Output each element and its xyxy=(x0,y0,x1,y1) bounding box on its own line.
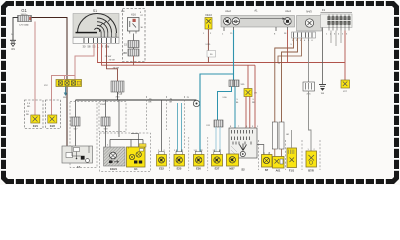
dashed col B xyxy=(99,102,126,132)
svg-text:A7: A7 xyxy=(77,165,81,169)
wire red pair into module xyxy=(246,97,250,129)
connector X11 xyxy=(206,120,223,127)
connector X30 on red C xyxy=(111,81,124,99)
svg-text:RD: RD xyxy=(27,106,31,108)
module N body xyxy=(297,16,322,32)
wire S1 pin to connector X xyxy=(107,44,118,82)
dashed box W10 xyxy=(25,100,44,129)
lamp c xyxy=(174,152,185,171)
connector bar X12 xyxy=(56,80,82,87)
wire N pin grey down to lamp k xyxy=(308,38,310,82)
svg-text:.5 RD: .5 RD xyxy=(205,44,211,46)
svg-text:.75 GR: .75 GR xyxy=(112,68,119,70)
wire S1 pin to red bus B xyxy=(102,44,256,66)
dashed col A xyxy=(70,102,97,168)
svg-text:S1: S1 xyxy=(93,9,97,13)
connector W10 xyxy=(31,115,40,128)
indicator lamp A1e2 xyxy=(224,18,231,25)
svg-text:.75 SW: .75 SW xyxy=(104,56,112,58)
svg-text:A1e4: A1e4 xyxy=(285,10,291,13)
svg-text:S2: S2 xyxy=(241,168,245,172)
wire blue into module xyxy=(234,87,236,129)
bus end circle xyxy=(193,100,199,106)
wire cluster blue down xyxy=(233,30,235,80)
module N pin strip xyxy=(292,32,316,38)
dashed enclosure xyxy=(123,9,146,62)
lamp d xyxy=(194,152,205,171)
wire S1 to interior connector xyxy=(75,44,94,81)
lamp partition dashes xyxy=(170,137,208,171)
svg-text:N4/3: N4/3 xyxy=(306,10,312,14)
ground W3 under fuses xyxy=(319,28,326,96)
indicator lamp A1e4 xyxy=(284,18,291,25)
battery G1 xyxy=(18,16,32,27)
dashed enclosure E1 xyxy=(100,133,151,172)
wire into j xyxy=(286,130,292,148)
fuse box F1 xyxy=(321,14,353,46)
connector S17 xyxy=(71,117,80,131)
svg-text:RD: RD xyxy=(26,114,30,116)
svg-text:E1: E1 xyxy=(134,167,138,171)
leveling motor M21 xyxy=(104,147,126,171)
wire S1 pin to red bus A xyxy=(98,44,345,63)
indicator lamp A1e1 xyxy=(232,18,239,25)
wire X30 to bus xyxy=(117,92,119,100)
wire G1 to ground xyxy=(11,18,18,41)
connector X9 yellow xyxy=(244,65,257,96)
wire fuse red down to X27 xyxy=(344,31,346,81)
wire S18 down xyxy=(105,126,107,147)
svg-text:15R: 15R xyxy=(122,52,127,55)
connector X27 xyxy=(341,80,350,93)
wire G1 red feed down xyxy=(27,22,35,116)
connector S18 xyxy=(101,117,110,131)
wire N pin to left drop b xyxy=(282,38,298,122)
ground arrow below X12 xyxy=(64,87,68,97)
module A7 xyxy=(62,146,93,169)
wire pale blue to lamp e xyxy=(216,127,220,152)
connector S35a xyxy=(124,41,139,48)
connector S35b xyxy=(122,49,139,56)
connector X35 pair xyxy=(229,80,245,87)
connector X4 xyxy=(205,18,212,30)
cluster pins xyxy=(224,27,288,31)
svg-text:X4/2: X4/2 xyxy=(50,125,56,128)
unit i xyxy=(273,157,285,173)
lamp f xyxy=(227,154,239,170)
fuse box F1 bracket xyxy=(321,8,353,13)
svg-text:B7/8: B7/8 xyxy=(308,169,314,173)
wire cluster red down xyxy=(287,30,289,63)
svg-text:12V 62Ah: 12V 62Ah xyxy=(19,24,29,27)
relay K1 label xyxy=(131,12,142,17)
pin ticks above lamps xyxy=(177,150,270,155)
connector S88 xyxy=(303,82,315,96)
svg-text:58d: 58d xyxy=(105,45,110,49)
svg-text:A01: A01 xyxy=(276,169,281,173)
wire S17 to module A xyxy=(75,126,77,146)
wire X4 down to bus A xyxy=(207,29,216,63)
headlamp unit E1 xyxy=(127,144,147,171)
svg-text:E25: E25 xyxy=(177,166,182,170)
svg-text:X18/1: X18/1 xyxy=(100,104,106,106)
svg-text:.75 GE: .75 GE xyxy=(108,60,115,62)
svg-text:A1: A1 xyxy=(254,9,258,13)
battery G1 label xyxy=(21,8,28,16)
dashed cols right of bus xyxy=(147,96,321,170)
svg-text:N7: N7 xyxy=(265,168,269,172)
svg-text:G1: G1 xyxy=(21,8,27,13)
switch S1 body xyxy=(73,14,119,38)
wire N pin to left drop a xyxy=(275,38,294,122)
svg-text:X4/10: X4/10 xyxy=(205,13,212,17)
cluster A1 body xyxy=(221,16,295,28)
svg-text:F1/1: F1/1 xyxy=(289,169,295,173)
cluster A1 labels xyxy=(225,9,291,14)
unit k xyxy=(306,151,317,173)
switch S1 pin numbers xyxy=(83,45,110,49)
connector W16 xyxy=(48,115,57,128)
ground bus xyxy=(76,99,197,101)
wire relay chain xyxy=(133,34,135,66)
wire G1 main feed to vertical drop xyxy=(32,18,68,147)
wire N pin bend c xyxy=(278,38,302,63)
wire blue drop e branch xyxy=(218,87,232,121)
lamp E b xyxy=(157,152,167,171)
svg-text:E27: E27 xyxy=(215,166,220,170)
ground W1 xyxy=(10,40,16,51)
module N label xyxy=(306,10,312,14)
wire blue branch to lamp d xyxy=(200,74,234,152)
relay K1 xyxy=(128,18,140,34)
connector X4 label xyxy=(205,13,212,17)
svg-text:A1e2: A1e2 xyxy=(225,10,231,13)
switch S1 pin strip xyxy=(73,38,119,44)
bus stubs xyxy=(76,100,162,152)
svg-text:BR: BR xyxy=(149,102,152,104)
border frame (film-style dashed black bars) xyxy=(1,1,400,185)
switch S1 label xyxy=(93,9,97,13)
wire S88 down to lamp k xyxy=(309,91,312,151)
svg-text:K16: K16 xyxy=(131,13,136,17)
svg-text:E26: E26 xyxy=(196,166,201,170)
svg-text:RD: RD xyxy=(252,102,256,104)
dashed box W16 xyxy=(46,100,61,129)
svg-text:E19/1: E19/1 xyxy=(110,167,117,171)
wire rail E1 xyxy=(110,134,143,148)
unit j xyxy=(287,148,297,173)
svg-text:X4/1: X4/1 xyxy=(33,125,39,128)
module S4 xyxy=(229,128,264,172)
wire pair to lamp c xyxy=(178,103,182,152)
wire labels xyxy=(104,56,119,70)
wire pink branch to W16 box xyxy=(52,76,76,116)
misc tiny labels xyxy=(44,11,348,155)
bus label xyxy=(118,93,123,96)
svg-text:.5 BL: .5 BL xyxy=(222,97,228,99)
wire inside cluster xyxy=(240,18,285,20)
svg-text:E22: E22 xyxy=(159,166,164,170)
wire red from bus B into module xyxy=(254,65,256,128)
lamp e xyxy=(212,152,223,171)
lamp h motor xyxy=(262,155,273,173)
svg-text:X18: X18 xyxy=(118,93,123,96)
socket pair above i xyxy=(272,122,284,157)
svg-text:M27: M27 xyxy=(229,166,235,170)
